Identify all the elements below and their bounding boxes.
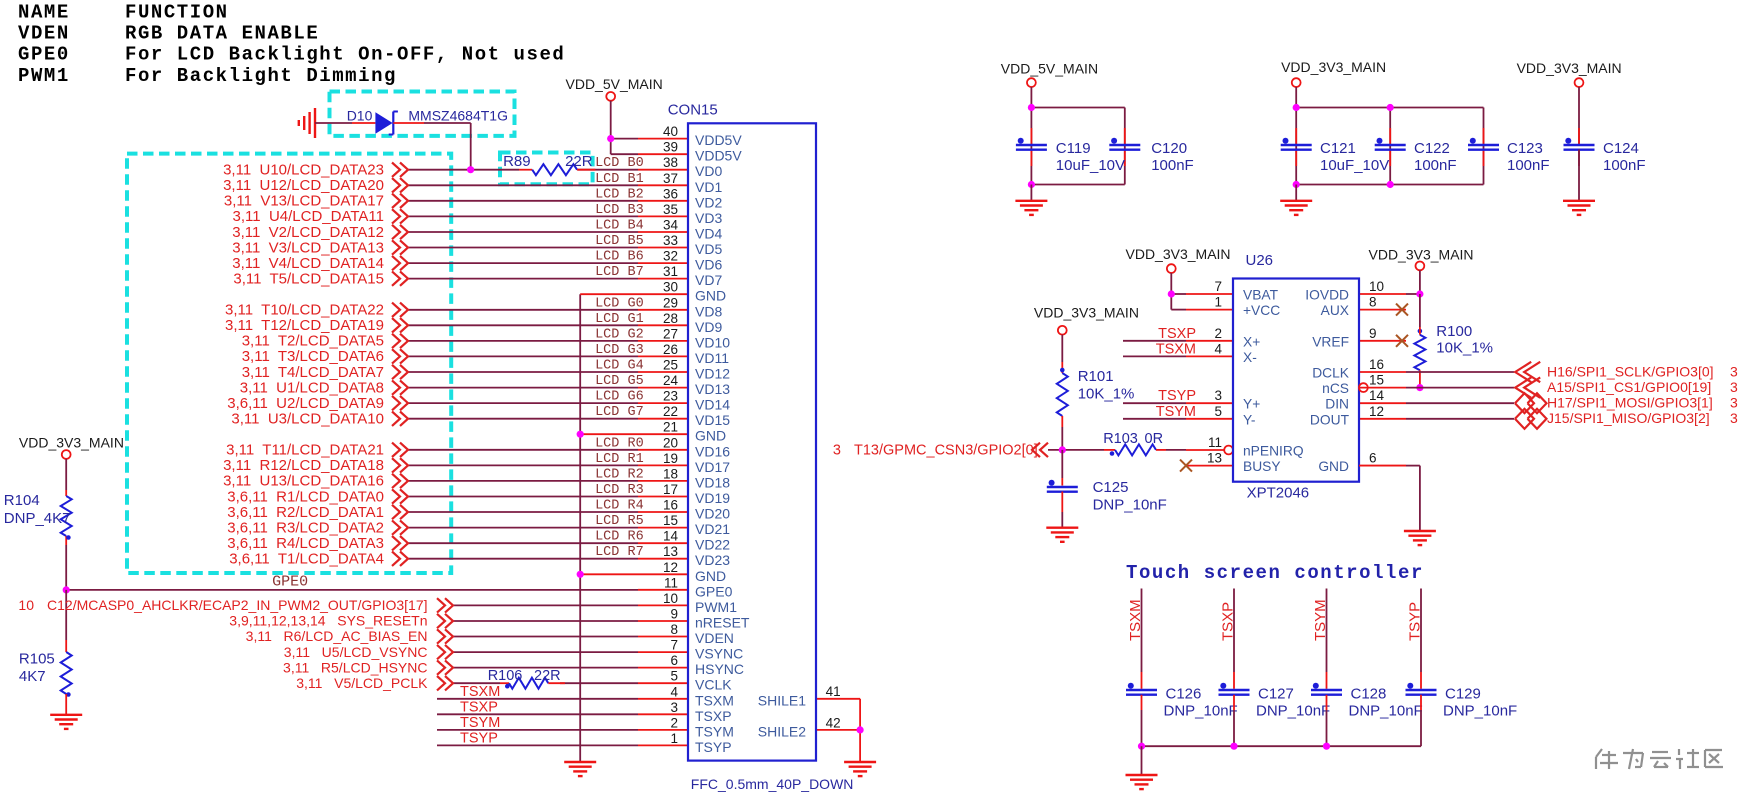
svg-text:3: 3 xyxy=(1730,410,1738,426)
svg-text:+VCC: +VCC xyxy=(1243,303,1280,318)
svg-text:5: 5 xyxy=(1214,404,1222,419)
svg-text:9: 9 xyxy=(1369,326,1377,341)
svg-text:26: 26 xyxy=(663,342,678,357)
svg-text:19: 19 xyxy=(663,451,678,466)
svg-text:13: 13 xyxy=(1207,451,1222,466)
svg-text:TSYM: TSYM xyxy=(460,715,500,731)
svg-text:DNP_10nF: DNP_10nF xyxy=(1256,703,1330,720)
svg-text:8: 8 xyxy=(1369,295,1377,310)
svg-text:3,11 T4/LCD_DATA7: 3,11 T4/LCD_DATA7 xyxy=(242,364,384,381)
svg-text:6: 6 xyxy=(670,653,678,668)
svg-text:VD20: VD20 xyxy=(695,506,730,522)
svg-text:X+: X+ xyxy=(1243,334,1260,349)
svg-text:GND: GND xyxy=(695,288,726,304)
svg-text:41: 41 xyxy=(826,684,841,699)
svg-text:8: 8 xyxy=(670,622,678,637)
svg-text:TSXM: TSXM xyxy=(1127,599,1144,641)
svg-text:3,6,11 R2/LCD_DATA1: 3,6,11 R2/LCD_DATA1 xyxy=(227,504,384,521)
svg-text:27: 27 xyxy=(663,326,678,341)
svg-text:VD11: VD11 xyxy=(695,350,729,366)
svg-text:22R: 22R xyxy=(534,668,561,684)
svg-text:3,11 V5/LCD_PCLK: 3,11 V5/LCD_PCLK xyxy=(296,675,428,691)
svg-text:3,6,11 T1/LCD_DATA4: 3,6,11 T1/LCD_DATA4 xyxy=(229,551,384,568)
svg-text:3,6,11 U2/LCD_DATA9: 3,6,11 U2/LCD_DATA9 xyxy=(227,395,384,412)
svg-text:LCD B6: LCD B6 xyxy=(595,250,644,265)
svg-text:SHILE1: SHILE1 xyxy=(758,692,806,708)
svg-text:Y-: Y- xyxy=(1243,412,1256,427)
svg-text:TSXP: TSXP xyxy=(695,708,732,724)
svg-text:LCD R4: LCD R4 xyxy=(595,499,644,514)
svg-text:3,11 V13/LCD_DATA17: 3,11 V13/LCD_DATA17 xyxy=(224,193,384,210)
svg-text:Y+: Y+ xyxy=(1243,397,1260,412)
svg-text:3,11 V4/LCD_DATA14: 3,11 V4/LCD_DATA14 xyxy=(232,255,384,272)
svg-text:9: 9 xyxy=(670,607,678,622)
svg-text:3,11 U1/LCD_DATA8: 3,11 U1/LCD_DATA8 xyxy=(240,379,384,396)
svg-text:VD21: VD21 xyxy=(695,521,730,537)
svg-text:3: 3 xyxy=(1214,388,1222,403)
svg-text:VD23: VD23 xyxy=(695,552,730,568)
svg-text:C119: C119 xyxy=(1056,140,1091,157)
svg-text:3,11 R5/LCD_HSYNC: 3,11 R5/LCD_HSYNC xyxy=(283,659,427,675)
svg-text:TSXP: TSXP xyxy=(1220,602,1237,641)
svg-text:H17/SPI1_MOSI/GPIO3[1]: H17/SPI1_MOSI/GPIO3[1] xyxy=(1547,395,1713,411)
svg-text:TSYM: TSYM xyxy=(695,723,734,739)
svg-text:3,11 T5/LCD_DATA15: 3,11 T5/LCD_DATA15 xyxy=(233,270,384,287)
svg-text:100nF: 100nF xyxy=(1603,157,1646,174)
svg-text:LCD R0: LCD R0 xyxy=(595,436,644,451)
svg-text:TSYP: TSYP xyxy=(1407,602,1424,641)
svg-text:LCD R7: LCD R7 xyxy=(595,545,644,560)
svg-text:LCD R5: LCD R5 xyxy=(595,514,644,529)
svg-text:TSXM: TSXM xyxy=(460,684,500,700)
svg-text:TSXP: TSXP xyxy=(460,699,498,715)
svg-text:DNP_10nF: DNP_10nF xyxy=(1443,703,1517,720)
svg-text:22R: 22R xyxy=(565,153,593,170)
svg-text:18: 18 xyxy=(663,466,678,481)
svg-text:22: 22 xyxy=(663,404,678,419)
svg-text:3: 3 xyxy=(1730,395,1738,411)
svg-text:5: 5 xyxy=(670,669,678,684)
svg-text:3,11 V2/LCD_DATA12: 3,11 V2/LCD_DATA12 xyxy=(232,224,384,241)
svg-text:SHILE2: SHILE2 xyxy=(758,723,806,739)
svg-text:LCD B3: LCD B3 xyxy=(595,203,644,218)
svg-text:LCD B1: LCD B1 xyxy=(595,172,644,187)
svg-text:VD19: VD19 xyxy=(695,490,730,506)
svg-text:100nF: 100nF xyxy=(1414,157,1457,174)
svg-text:29: 29 xyxy=(663,295,678,310)
svg-text:VD0: VD0 xyxy=(695,163,722,179)
svg-text:LCD B5: LCD B5 xyxy=(595,234,644,249)
svg-text:VDD_5V_MAIN: VDD_5V_MAIN xyxy=(1001,60,1098,76)
svg-text:DNP_10nF: DNP_10nF xyxy=(1164,703,1238,720)
svg-text:GND: GND xyxy=(695,568,726,584)
svg-text:100nF: 100nF xyxy=(1151,157,1194,174)
svg-text:VD6: VD6 xyxy=(695,257,722,273)
svg-text:LCD B0: LCD B0 xyxy=(595,156,644,171)
svg-text:TSYP: TSYP xyxy=(1158,388,1196,404)
svg-text:11: 11 xyxy=(664,575,678,590)
svg-text:6: 6 xyxy=(1369,451,1377,466)
svg-text:3: 3 xyxy=(670,700,678,715)
svg-text:VD13: VD13 xyxy=(695,381,730,397)
svg-text:VDEN: VDEN xyxy=(695,630,734,646)
svg-text:LCD B4: LCD B4 xyxy=(595,219,644,234)
svg-text:3,9,11,12,13,14 SYS_RESETn: 3,9,11,12,13,14 SYS_RESETn xyxy=(229,613,427,629)
svg-text:nRESET: nRESET xyxy=(695,615,750,631)
svg-text:1: 1 xyxy=(1214,295,1222,310)
svg-text:IOVDD: IOVDD xyxy=(1305,288,1349,303)
svg-text:LCD R1: LCD R1 xyxy=(595,452,644,467)
svg-text:DNP_4K7: DNP_4K7 xyxy=(4,510,71,527)
svg-text:3,11 T12/LCD_DATA19: 3,11 T12/LCD_DATA19 xyxy=(225,317,384,334)
svg-text:R89: R89 xyxy=(503,153,531,170)
svg-text:TSXP: TSXP xyxy=(1158,326,1196,342)
svg-text:VDD5V: VDD5V xyxy=(695,132,742,148)
svg-text:X-: X- xyxy=(1243,350,1257,365)
svg-text:R106: R106 xyxy=(488,668,523,684)
svg-text:TSYP: TSYP xyxy=(695,739,732,755)
svg-text:VCLK: VCLK xyxy=(695,677,732,693)
svg-text:VDD_5V_MAIN: VDD_5V_MAIN xyxy=(566,76,663,92)
svg-text:3,6,11 R1/LCD_DATA0: 3,6,11 R1/LCD_DATA0 xyxy=(227,488,384,505)
svg-text:2: 2 xyxy=(670,715,678,730)
svg-text:VD12: VD12 xyxy=(695,366,730,382)
svg-text:C128: C128 xyxy=(1351,685,1387,702)
svg-text:R103: R103 xyxy=(1103,431,1138,447)
svg-text:C124: C124 xyxy=(1603,140,1639,157)
svg-text:7: 7 xyxy=(1214,279,1222,294)
svg-text:3,11 T10/LCD_DATA22: 3,11 T10/LCD_DATA22 xyxy=(225,302,384,319)
svg-text:RGB DATA ENABLE: RGB DATA ENABLE xyxy=(125,23,319,45)
svg-text:3: 3 xyxy=(1730,379,1738,395)
svg-text:15: 15 xyxy=(1369,373,1384,388)
svg-text:12: 12 xyxy=(1369,404,1384,419)
svg-text:nPENIRQ: nPENIRQ xyxy=(1243,444,1304,459)
svg-text:37: 37 xyxy=(663,171,678,186)
svg-text:3,11 U5/LCD_VSYNC: 3,11 U5/LCD_VSYNC xyxy=(284,644,428,660)
svg-text:VD10: VD10 xyxy=(695,334,730,350)
svg-text:34: 34 xyxy=(663,218,679,233)
svg-text:FUNCTION: FUNCTION xyxy=(125,2,229,24)
svg-text:C123: C123 xyxy=(1507,140,1543,157)
svg-text:TSXM: TSXM xyxy=(1156,341,1196,357)
svg-text:2: 2 xyxy=(1214,326,1222,341)
svg-text:10uF_10V: 10uF_10V xyxy=(1320,157,1389,174)
svg-text:R105: R105 xyxy=(19,651,55,668)
svg-text:100nF: 100nF xyxy=(1507,157,1550,174)
svg-text:10: 10 xyxy=(663,591,678,606)
svg-text:VD3: VD3 xyxy=(695,210,722,226)
svg-text:3,11 U13/LCD_DATA16: 3,11 U13/LCD_DATA16 xyxy=(223,473,384,490)
svg-text:C120: C120 xyxy=(1151,140,1187,157)
svg-text:4: 4 xyxy=(1214,341,1222,356)
svg-text:Touch screen controller: Touch screen controller xyxy=(1126,562,1424,584)
svg-text:3: 3 xyxy=(833,442,841,458)
svg-text:36: 36 xyxy=(663,186,678,201)
svg-text:R100: R100 xyxy=(1436,323,1472,340)
svg-text:20: 20 xyxy=(663,435,678,450)
svg-text:TSYM: TSYM xyxy=(1156,404,1196,420)
svg-text:28: 28 xyxy=(663,311,678,326)
svg-text:3,6,11 R3/LCD_DATA2: 3,6,11 R3/LCD_DATA2 xyxy=(227,519,384,536)
svg-text:3,11 T2/LCD_DATA5: 3,11 T2/LCD_DATA5 xyxy=(242,333,384,350)
svg-text:LCD R3: LCD R3 xyxy=(595,483,644,498)
svg-text:LCD R2: LCD R2 xyxy=(595,467,644,482)
svg-text:30: 30 xyxy=(663,280,678,295)
svg-text:GND: GND xyxy=(1318,459,1349,474)
svg-text:VD7: VD7 xyxy=(695,272,722,288)
svg-text:3,11 R6/LCD_AC_BIAS_EN: 3,11 R6/LCD_AC_BIAS_EN xyxy=(246,628,428,644)
svg-text:C125: C125 xyxy=(1093,479,1129,496)
svg-text:42: 42 xyxy=(826,716,841,731)
svg-text:VD2: VD2 xyxy=(695,194,722,210)
svg-text:3,6,11 R4/LCD_DATA3: 3,6,11 R4/LCD_DATA3 xyxy=(227,535,384,552)
svg-text:11: 11 xyxy=(1208,435,1222,450)
svg-text:MMSZ4684T1G: MMSZ4684T1G xyxy=(408,108,508,124)
svg-text:GPE0: GPE0 xyxy=(272,574,308,591)
svg-text:TSYP: TSYP xyxy=(460,730,498,746)
svg-text:C12/MCASP0_AHCLKR/ECAP2_IN_PWM: C12/MCASP0_AHCLKR/ECAP2_IN_PWM2_OUT/GPIO… xyxy=(47,597,427,613)
svg-text:C121: C121 xyxy=(1320,140,1356,157)
svg-text:VD15: VD15 xyxy=(695,412,730,428)
svg-text:15: 15 xyxy=(663,513,678,528)
svg-text:7: 7 xyxy=(670,638,678,653)
svg-text:3,11 V3/LCD_DATA13: 3,11 V3/LCD_DATA13 xyxy=(232,239,384,256)
svg-text:A15/SPI1_CS1/GPIO0[19]: A15/SPI1_CS1/GPIO0[19] xyxy=(1547,379,1711,395)
svg-text:31: 31 xyxy=(663,264,678,279)
svg-text:DNP_10nF: DNP_10nF xyxy=(1093,497,1167,514)
svg-text:3,11 T11/LCD_DATA21: 3,11 T11/LCD_DATA21 xyxy=(226,442,384,459)
svg-text:VREF: VREF xyxy=(1312,334,1349,349)
svg-text:For Backlight Dimming: For Backlight Dimming xyxy=(125,65,397,87)
svg-text:3,11 U10/LCD_DATA23: 3,11 U10/LCD_DATA23 xyxy=(223,162,384,179)
svg-text:14: 14 xyxy=(663,529,679,544)
svg-text:1: 1 xyxy=(670,731,678,746)
svg-text:21: 21 xyxy=(663,420,678,435)
svg-text:VD14: VD14 xyxy=(695,397,730,413)
svg-text:NAME: NAME xyxy=(18,2,70,24)
svg-text:LCD G5: LCD G5 xyxy=(595,374,644,389)
svg-text:VDD5V: VDD5V xyxy=(695,148,742,164)
svg-text:10: 10 xyxy=(1369,279,1384,294)
svg-text:VD1: VD1 xyxy=(695,179,722,195)
svg-text:LCD B7: LCD B7 xyxy=(595,265,644,280)
svg-text:VD22: VD22 xyxy=(695,537,730,553)
svg-text:39: 39 xyxy=(663,140,678,155)
svg-text:TSXM: TSXM xyxy=(695,692,734,708)
svg-text:4K7: 4K7 xyxy=(19,668,46,685)
svg-text:35: 35 xyxy=(663,202,678,217)
svg-text:32: 32 xyxy=(663,249,678,264)
svg-text:DCLK: DCLK xyxy=(1312,366,1350,381)
svg-text:LCD G6: LCD G6 xyxy=(595,390,644,405)
svg-text:GND: GND xyxy=(695,428,726,444)
svg-text:R101: R101 xyxy=(1078,368,1114,385)
svg-text:33: 33 xyxy=(663,233,678,248)
svg-text:10K_1%: 10K_1% xyxy=(1078,386,1135,403)
svg-text:10: 10 xyxy=(18,597,34,613)
svg-text:16: 16 xyxy=(663,498,678,513)
svg-text:DIN: DIN xyxy=(1325,397,1349,412)
svg-text:VDD_3V3_MAIN: VDD_3V3_MAIN xyxy=(1369,247,1474,263)
svg-text:PWM1: PWM1 xyxy=(695,599,737,615)
svg-text:3: 3 xyxy=(1730,363,1738,379)
svg-text:GPE0: GPE0 xyxy=(695,583,733,599)
svg-text:3,11 T3/LCD_DATA6: 3,11 T3/LCD_DATA6 xyxy=(242,348,384,365)
svg-text:3,11 U4/LCD_DATA11: 3,11 U4/LCD_DATA11 xyxy=(233,208,384,225)
svg-text:CON15: CON15 xyxy=(668,101,718,118)
svg-text:LCD G4: LCD G4 xyxy=(595,359,644,374)
svg-text:H16/SPI1_SCLK/GPIO3[0]: H16/SPI1_SCLK/GPIO3[0] xyxy=(1547,363,1714,379)
svg-text:For LCD Backlight On-OFF, Not: For LCD Backlight On-OFF, Not used xyxy=(125,44,565,66)
svg-text:VD16: VD16 xyxy=(695,443,730,459)
svg-text:VDD_3V3_MAIN: VDD_3V3_MAIN xyxy=(1281,59,1386,75)
svg-text:VBAT: VBAT xyxy=(1243,288,1279,303)
svg-text:40: 40 xyxy=(663,124,678,139)
svg-text:T13/GPMC_CSN3/GPIO2[0]: T13/GPMC_CSN3/GPIO2[0] xyxy=(854,442,1038,458)
svg-text:10K_1%: 10K_1% xyxy=(1436,340,1493,357)
svg-text:LCD R6: LCD R6 xyxy=(595,530,644,545)
svg-text:3,11 R12/LCD_DATA18: 3,11 R12/LCD_DATA18 xyxy=(223,457,384,474)
svg-text:VDD_3V3_MAIN: VDD_3V3_MAIN xyxy=(1034,305,1139,321)
svg-text:16: 16 xyxy=(1369,357,1384,372)
svg-text:17: 17 xyxy=(663,482,678,497)
svg-text:VD9: VD9 xyxy=(695,319,722,335)
svg-text:0R: 0R xyxy=(1145,431,1164,447)
svg-text:3,11 U3/LCD_DATA10: 3,11 U3/LCD_DATA10 xyxy=(231,411,384,428)
svg-text:TSYM: TSYM xyxy=(1312,599,1329,641)
svg-text:GPE0: GPE0 xyxy=(18,44,70,66)
svg-text:LCD B2: LCD B2 xyxy=(595,187,644,202)
svg-text:VDD_3V3_MAIN: VDD_3V3_MAIN xyxy=(19,434,124,450)
svg-text:3,11 U12/LCD_DATA20: 3,11 U12/LCD_DATA20 xyxy=(223,177,384,194)
svg-text:J15/SPI1_MISO/GPIO3[2]: J15/SPI1_MISO/GPIO3[2] xyxy=(1547,410,1710,426)
svg-text:23: 23 xyxy=(663,389,678,404)
svg-text:D10: D10 xyxy=(347,108,373,124)
svg-text:PWM1: PWM1 xyxy=(18,65,70,87)
svg-text:25: 25 xyxy=(663,358,678,373)
svg-text:38: 38 xyxy=(663,155,678,170)
svg-text:LCD G1: LCD G1 xyxy=(595,312,644,327)
svg-text:U26: U26 xyxy=(1246,252,1274,269)
svg-text:VSYNC: VSYNC xyxy=(695,646,743,662)
svg-text:AUX: AUX xyxy=(1321,303,1349,318)
svg-text:VD18: VD18 xyxy=(695,474,730,490)
svg-text:C129: C129 xyxy=(1445,685,1481,702)
svg-text:C126: C126 xyxy=(1166,685,1202,702)
svg-text:DNP_10nF: DNP_10nF xyxy=(1349,703,1423,720)
svg-text:XPT2046: XPT2046 xyxy=(1247,485,1310,502)
svg-text:HSYNC: HSYNC xyxy=(695,661,744,677)
svg-text:LCD G0: LCD G0 xyxy=(595,296,644,311)
svg-text:VDD_3V3_MAIN: VDD_3V3_MAIN xyxy=(1517,60,1622,76)
svg-text:VDD_3V3_MAIN: VDD_3V3_MAIN xyxy=(1126,246,1231,262)
svg-text:C127: C127 xyxy=(1258,685,1294,702)
svg-text:10uF_10V: 10uF_10V xyxy=(1056,157,1125,174)
svg-text:12: 12 xyxy=(663,560,678,575)
svg-text:4: 4 xyxy=(670,684,678,699)
svg-text:LCD G2: LCD G2 xyxy=(595,327,644,342)
svg-text:VDEN: VDEN xyxy=(18,23,70,45)
svg-text:LCD G7: LCD G7 xyxy=(595,405,644,420)
svg-text:VD4: VD4 xyxy=(695,226,722,242)
svg-text:nCS: nCS xyxy=(1322,381,1349,396)
svg-text:VD8: VD8 xyxy=(695,303,722,319)
svg-text:DOUT: DOUT xyxy=(1310,412,1350,427)
svg-text:R104: R104 xyxy=(4,492,40,509)
svg-text:24: 24 xyxy=(663,373,679,388)
svg-text:VD17: VD17 xyxy=(695,459,730,475)
svg-text:14: 14 xyxy=(1369,388,1385,403)
svg-text:LCD G3: LCD G3 xyxy=(595,343,644,358)
svg-text:BUSY: BUSY xyxy=(1243,459,1281,474)
svg-text:13: 13 xyxy=(663,544,678,559)
svg-text:C122: C122 xyxy=(1414,140,1450,157)
svg-text:FFC_0.5mm_40P_DOWN: FFC_0.5mm_40P_DOWN xyxy=(691,776,854,792)
svg-text:VD5: VD5 xyxy=(695,241,722,257)
